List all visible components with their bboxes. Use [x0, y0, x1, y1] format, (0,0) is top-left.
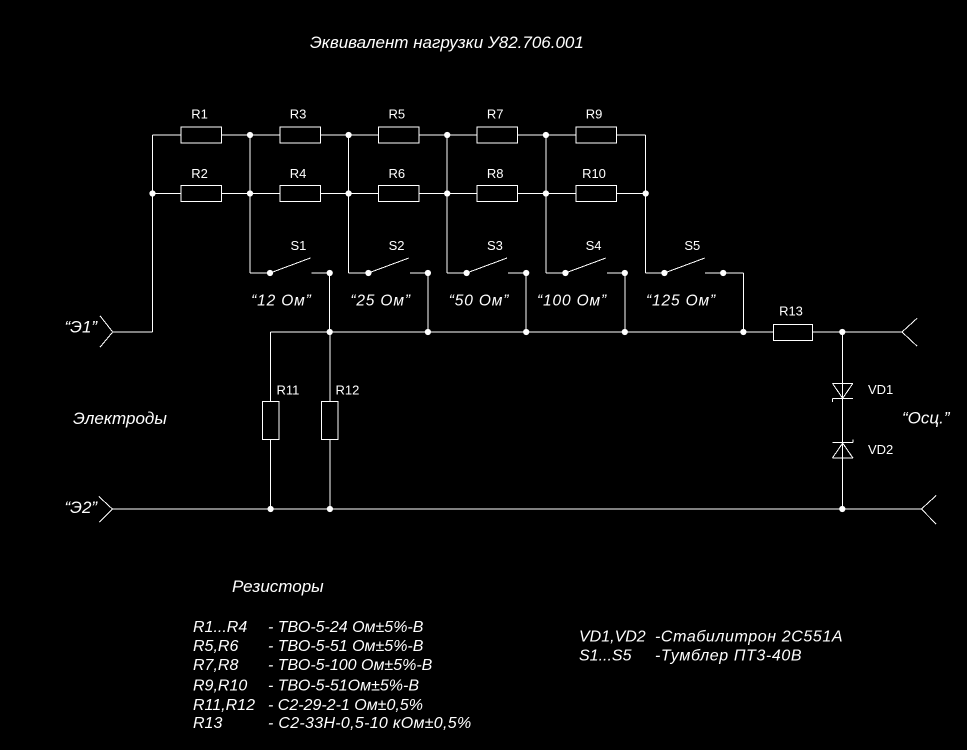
svg-text:-Тумблер ПТ3-40В: -Тумблер ПТ3-40В	[655, 648, 802, 665]
svg-text:- ТВО-5-51Ом±5%-В: - ТВО-5-51Ом±5%-В	[268, 677, 419, 694]
svg-text:“125 Ом”: “125 Ом”	[646, 292, 716, 309]
svg-text:R5: R5	[388, 107, 405, 122]
svg-text:R11,R12: R11,R12	[193, 697, 255, 714]
svg-text:R4: R4	[290, 166, 307, 181]
svg-text:“50 Ом”: “50 Ом”	[449, 292, 510, 309]
svg-text:R13: R13	[193, 715, 222, 732]
svg-text:S3: S3	[487, 238, 503, 253]
svg-text:- ТВО-5-51 Ом±5%-В: - ТВО-5-51 Ом±5%-В	[268, 638, 424, 655]
svg-text:R5,R6: R5,R6	[193, 638, 238, 655]
svg-text:- ТВО-5-100 Ом±5%-В: - ТВО-5-100 Ом±5%-В	[268, 657, 433, 674]
svg-text:R2: R2	[191, 166, 208, 181]
svg-text:S2: S2	[389, 238, 405, 253]
svg-text:R11: R11	[277, 383, 300, 398]
svg-text:S1: S1	[290, 238, 306, 253]
svg-text:Электроды: Электроды	[73, 409, 167, 428]
svg-text:R13: R13	[779, 304, 803, 319]
svg-text:S5: S5	[684, 238, 700, 253]
svg-text:“Осц.”: “Осц.”	[902, 409, 951, 428]
svg-text:- С2-29-2-1 Ом±0,5%: - С2-29-2-1 Ом±0,5%	[268, 697, 423, 714]
svg-text:S4: S4	[586, 238, 602, 253]
svg-text:“Э2”: “Э2”	[65, 498, 99, 517]
svg-text:VD1,VD2: VD1,VD2	[579, 629, 646, 646]
svg-text:- С2-33Н-0,5-10 кОм±0,5%: - С2-33Н-0,5-10 кОм±0,5%	[268, 715, 471, 732]
svg-text:R7,R8: R7,R8	[193, 657, 238, 674]
svg-text:VD1: VD1	[868, 382, 893, 397]
svg-text:Эквивалент нагрузки У82.706.00: Эквивалент нагрузки У82.706.001	[310, 33, 584, 52]
svg-text:R9: R9	[586, 107, 603, 122]
svg-text:S1...S5: S1...S5	[579, 648, 632, 665]
svg-text:“100 Ом”: “100 Ом”	[537, 292, 607, 309]
svg-text:R7: R7	[487, 107, 504, 122]
svg-text:R8: R8	[487, 166, 504, 181]
svg-text:“12 Ом”: “12 Ом”	[251, 292, 312, 309]
svg-text:- ТВО-5-24 Ом±5%-В: - ТВО-5-24 Ом±5%-В	[268, 619, 424, 636]
svg-text:“Э1”: “Э1”	[65, 318, 99, 337]
svg-text:R1...R4: R1...R4	[193, 619, 247, 636]
svg-text:R3: R3	[290, 107, 307, 122]
svg-text:R10: R10	[582, 166, 606, 181]
svg-text:R12: R12	[336, 383, 360, 398]
svg-text:“25 Ом”: “25 Ом”	[350, 292, 411, 309]
svg-text:-Стабилитрон 2С551А: -Стабилитрон 2С551А	[655, 629, 843, 646]
svg-text:R9,R10: R9,R10	[193, 677, 247, 694]
svg-text:VD2: VD2	[868, 442, 893, 457]
svg-text:Резисторы: Резисторы	[232, 577, 324, 596]
svg-text:R6: R6	[388, 166, 405, 181]
svg-text:R1: R1	[191, 107, 208, 122]
